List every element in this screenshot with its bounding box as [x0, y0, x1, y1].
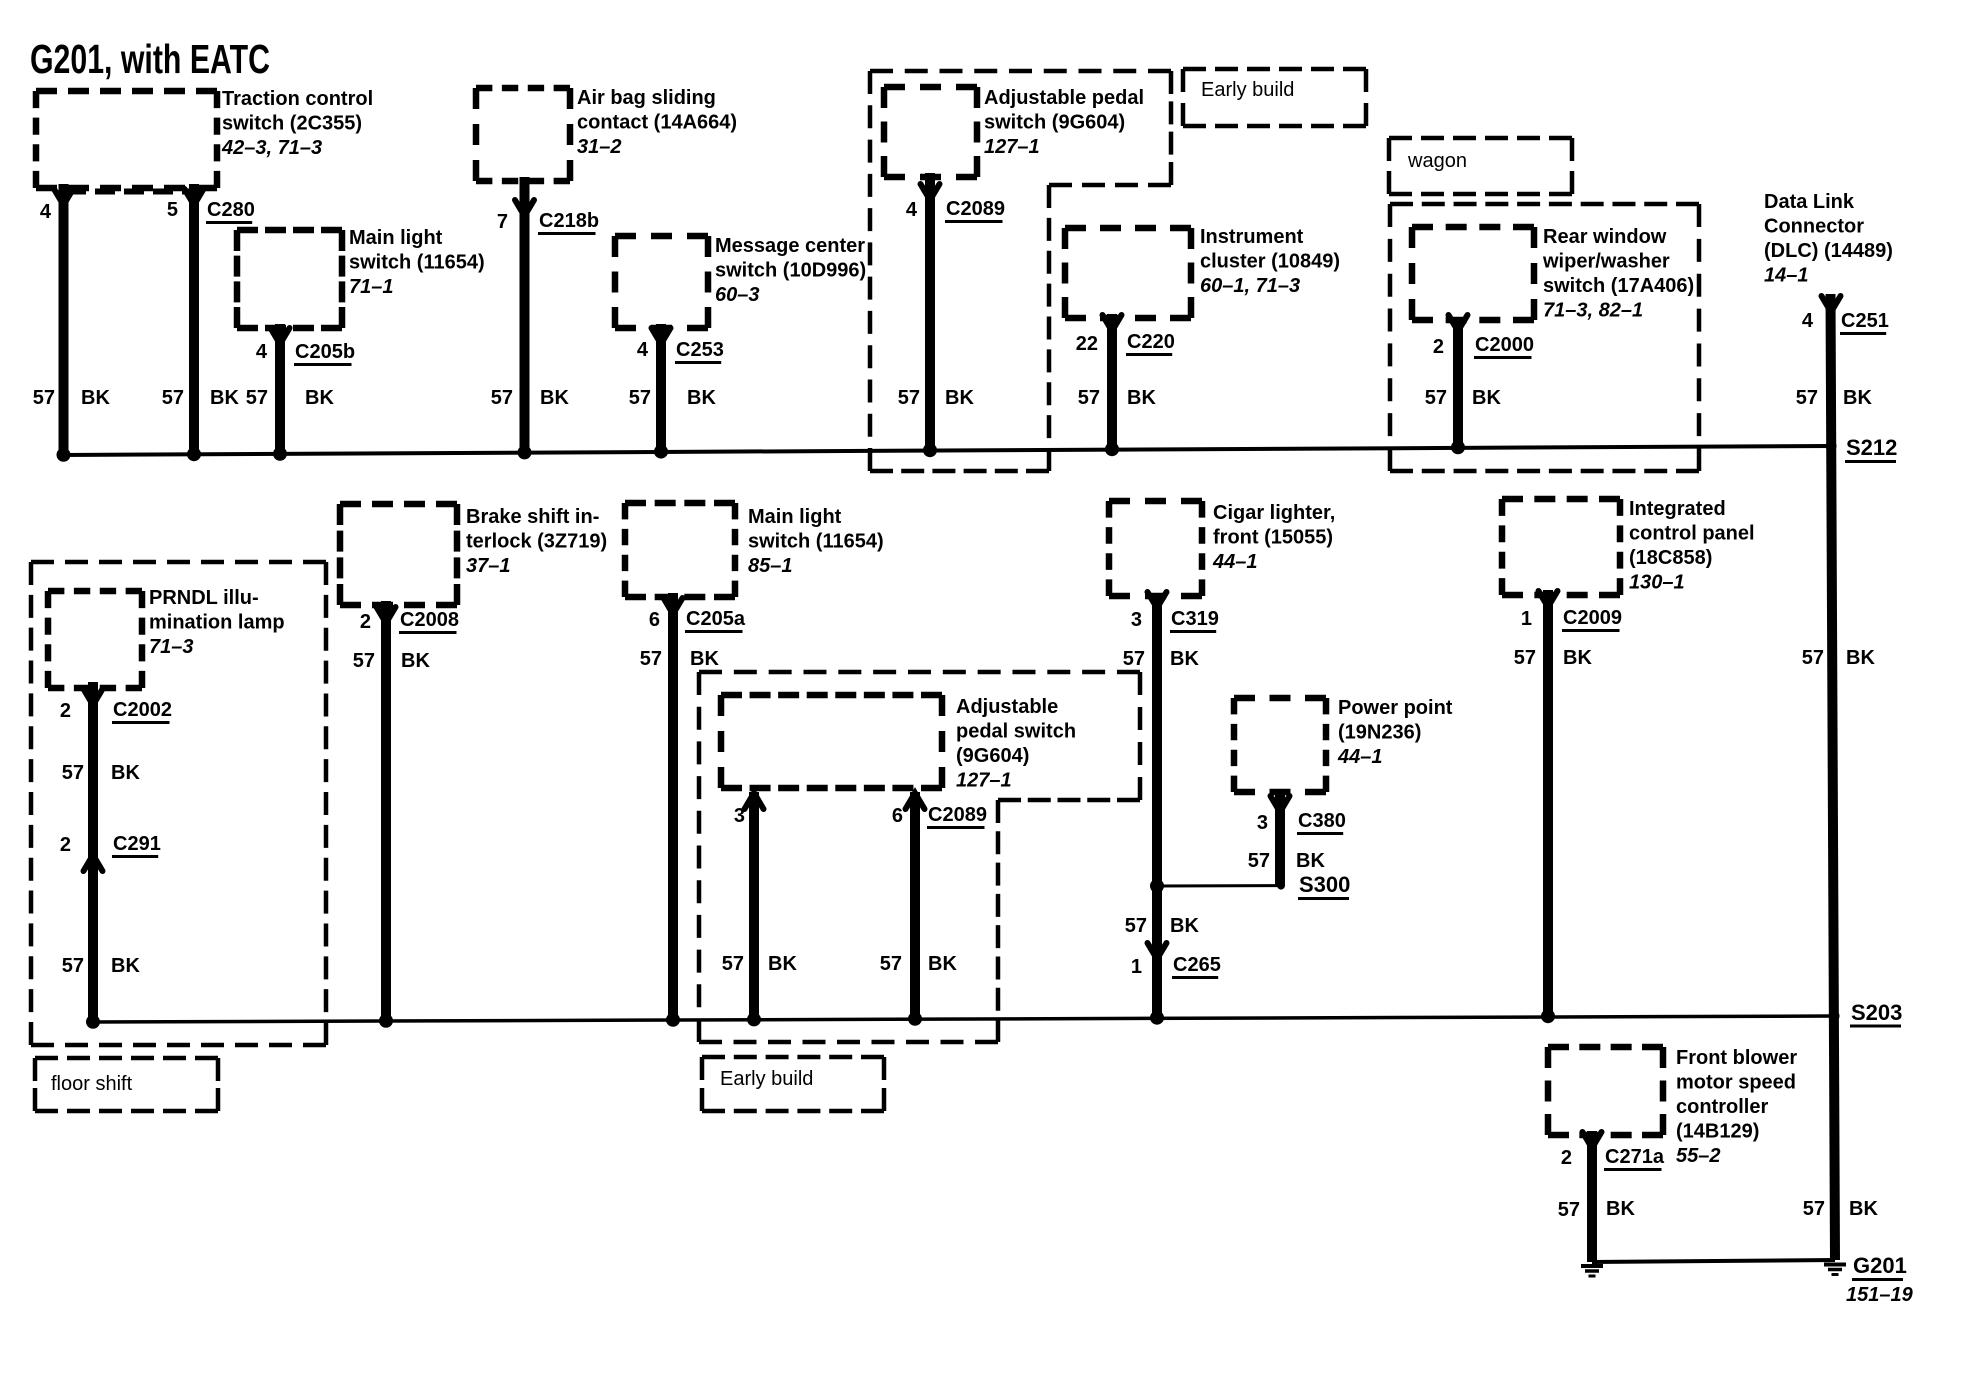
svg-text:151–19: 151–19 — [1846, 1284, 1914, 1306]
svg-text:C205b: C205b — [295, 341, 355, 363]
svg-text:57: 57 — [1248, 850, 1270, 872]
svg-text:Message center: Message center — [715, 235, 865, 257]
dot at power point wire end on S300 — [1277, 882, 1285, 890]
junction dot S212 / instrument cluster — [1105, 442, 1119, 456]
junction dot S203 / main light 85-1 — [666, 1013, 680, 1027]
svg-text:wagon: wagon — [1407, 150, 1467, 172]
svg-text:4: 4 — [256, 341, 268, 363]
junction dot S212 / message center — [654, 445, 668, 459]
svg-text:BK: BK — [81, 387, 110, 409]
svg-text:C2089: C2089 — [946, 198, 1005, 220]
svg-text:57: 57 — [1803, 1198, 1825, 1220]
brake shift interlock (3Z719) box — [340, 501, 457, 508]
svg-text:Data Link: Data Link — [1764, 191, 1855, 213]
svg-text:BK: BK — [111, 762, 140, 784]
svg-text:cluster (10849): cluster (10849) — [1200, 251, 1340, 273]
svg-text:5: 5 — [167, 199, 178, 221]
svg-text:contact (14A664): contact (14A664) — [577, 112, 737, 134]
svg-text:(14B129): (14B129) — [1676, 1121, 1759, 1143]
svg-text:BK: BK — [1563, 647, 1592, 669]
wire integrated control panel pin 1 to S203 — [1543, 590, 1553, 1016]
svg-text:BK: BK — [1170, 648, 1199, 670]
ground symbol at front blower wire — [1581, 1264, 1603, 1268]
wire front blower pin 2 to ground line — [1587, 1131, 1597, 1262]
svg-text:BK: BK — [1472, 387, 1501, 409]
svg-text:Adjustable: Adjustable — [956, 696, 1058, 718]
svg-text:Main light: Main light — [349, 227, 443, 249]
svg-text:BK: BK — [305, 387, 334, 409]
main light switch (11654) 85-1 box — [625, 500, 735, 507]
traction control switch (2C355) box — [36, 88, 217, 95]
svg-text:wiper/washer: wiper/washer — [1542, 251, 1670, 273]
svg-text:Rear window: Rear window — [1543, 226, 1667, 248]
air bag sliding contact (14A664) box — [476, 85, 570, 92]
svg-text:57: 57 — [629, 387, 651, 409]
svg-text:Cigar lighter,: Cigar lighter, — [1213, 502, 1335, 524]
svg-text:57: 57 — [1125, 915, 1147, 937]
svg-text:57: 57 — [1796, 387, 1818, 409]
svg-text:57: 57 — [353, 650, 375, 672]
svg-text:1: 1 — [1131, 956, 1142, 978]
junction dot S203 / adjustable pedal pin 3 — [747, 1012, 761, 1026]
svg-text:57: 57 — [62, 762, 84, 784]
svg-text:C271a: C271a — [1605, 1146, 1665, 1168]
junction dot S203 / adjustable pedal pin 6 — [908, 1012, 922, 1026]
floor shift label box — [35, 1056, 218, 1061]
svg-text:Main light: Main light — [748, 506, 842, 528]
wagon region around rear window wiper/washer switch — [1390, 202, 1699, 207]
junction dot S212 / DLC — [1826, 441, 1837, 452]
svg-text:Early build: Early build — [720, 1068, 813, 1090]
wire PRNDL lamp pin 2 to S203 — [88, 682, 98, 1022]
svg-text:C2008: C2008 — [400, 609, 459, 631]
wire DLC pin 4 down to G201 — [1831, 294, 1836, 1260]
junction dot S203 / integrated control panel — [1541, 1009, 1555, 1023]
svg-text:4: 4 — [1802, 310, 1814, 332]
junction dot S203 / DLC — [1829, 1011, 1840, 1022]
svg-text:BK: BK — [210, 387, 239, 409]
svg-text:switch (11654): switch (11654) — [349, 252, 485, 274]
svg-text:switch (10D996): switch (10D996) — [715, 260, 866, 282]
svg-text:6: 6 — [649, 609, 660, 631]
svg-text:Integrated: Integrated — [1629, 498, 1726, 520]
svg-text:BK: BK — [1127, 387, 1156, 409]
junction dot S212 / adjustable pedal top — [923, 443, 937, 457]
svg-text:C2009: C2009 — [1563, 607, 1622, 629]
svg-text:57: 57 — [1514, 647, 1536, 669]
PRNDL illumination lamp box — [48, 588, 142, 595]
svg-text:57: 57 — [1425, 387, 1447, 409]
svg-text:BK: BK — [928, 953, 957, 975]
main light switch (11654) 71-1 box — [237, 227, 342, 234]
svg-text:57: 57 — [1802, 647, 1824, 669]
svg-text:57: 57 — [162, 387, 184, 409]
early build label box (top) — [1183, 67, 1366, 72]
early build region around adjustable pedal switch (bottom) — [699, 670, 1140, 675]
rear window wiper/washer switch (17A406) box — [1412, 224, 1534, 231]
svg-text:Adjustable pedal: Adjustable pedal — [984, 87, 1144, 109]
wire cigar lighter pin 3 to S300 junction — [1152, 593, 1162, 886]
svg-text:(18C858): (18C858) — [1629, 547, 1712, 569]
svg-text:2: 2 — [1561, 1147, 1572, 1169]
svg-text:57: 57 — [491, 387, 513, 409]
junction dot S212 / air bag — [518, 445, 532, 459]
svg-text:4: 4 — [906, 199, 918, 221]
svg-text:57: 57 — [880, 953, 902, 975]
svg-text:C251: C251 — [1841, 310, 1889, 332]
wagon label box — [1389, 136, 1572, 141]
svg-text:57: 57 — [640, 648, 662, 670]
svg-text:127–1: 127–1 — [984, 136, 1040, 158]
svg-text:57: 57 — [33, 387, 55, 409]
svg-text:60–3: 60–3 — [715, 284, 760, 306]
svg-text:G201: G201 — [1853, 1253, 1907, 1278]
svg-text:57: 57 — [1078, 387, 1100, 409]
svg-text:PRNDL illu-: PRNDL illu- — [149, 587, 259, 609]
svg-text:44–1: 44–1 — [1212, 551, 1258, 573]
svg-text:22: 22 — [1076, 333, 1098, 355]
svg-text:127–1: 127–1 — [956, 770, 1012, 792]
svg-text:C220: C220 — [1127, 331, 1175, 353]
svg-text:pedal switch: pedal switch — [956, 721, 1076, 743]
svg-text:2: 2 — [1433, 336, 1444, 358]
svg-text:42–3, 71–3: 42–3, 71–3 — [221, 137, 322, 159]
svg-text:BK: BK — [690, 648, 719, 670]
svg-text:3: 3 — [734, 805, 745, 827]
svg-text:2: 2 — [60, 834, 71, 856]
svg-text:57: 57 — [62, 955, 84, 977]
svg-text:71–3, 82–1: 71–3, 82–1 — [1543, 300, 1643, 322]
svg-text:C2002: C2002 — [113, 699, 172, 721]
early build region around adjustable pedal switch (top) — [870, 69, 1171, 74]
wire adjustable pedal bottom pin 6 to S203 — [910, 792, 920, 1019]
svg-text:BK: BK — [1849, 1198, 1878, 1220]
wire main light switch pin 4 to S212 — [275, 324, 285, 454]
svg-text:(19N236): (19N236) — [1338, 722, 1421, 744]
junction dot S212 / rear window switch — [1451, 440, 1465, 454]
svg-text:BK: BK — [1606, 1198, 1635, 1220]
svg-text:31–2: 31–2 — [577, 136, 622, 158]
svg-text:2: 2 — [60, 700, 71, 722]
wire message center pin 4 to S212 — [656, 324, 666, 452]
svg-text:Air bag sliding: Air bag sliding — [577, 87, 716, 109]
svg-text:BK: BK — [687, 387, 716, 409]
svg-text:6: 6 — [892, 805, 903, 827]
svg-text:Traction control: Traction control — [222, 88, 373, 110]
svg-text:S203: S203 — [1851, 1000, 1902, 1025]
svg-text:(DLC) (14489): (DLC) (14489) — [1764, 240, 1893, 262]
junction dot S203 / brake shift — [379, 1014, 393, 1028]
svg-text:mination lamp: mination lamp — [149, 612, 285, 634]
svg-text:controller: controller — [1676, 1096, 1768, 1118]
svg-text:C2089: C2089 — [928, 804, 987, 826]
junction dot S212 / main light 71-1 — [273, 447, 287, 461]
svg-text:60–1, 71–3: 60–1, 71–3 — [1200, 275, 1300, 297]
svg-text:7: 7 — [497, 211, 508, 233]
svg-text:BK: BK — [1170, 915, 1199, 937]
wire instrument cluster pin 22 to S212 — [1107, 314, 1117, 449]
adjustable pedal switch (9G604) top box — [884, 84, 977, 91]
svg-text:BK: BK — [1296, 850, 1325, 872]
wire S300 horizontal — [1157, 884, 1281, 887]
svg-text:BK: BK — [540, 387, 569, 409]
svg-text:130–1: 130–1 — [1629, 572, 1685, 594]
bus S212 — [62, 446, 1831, 455]
svg-text:switch (9G604): switch (9G604) — [984, 112, 1125, 134]
svg-text:1: 1 — [1521, 608, 1532, 630]
svg-text:4: 4 — [637, 339, 649, 361]
junction dot S203 / PRNDL — [86, 1015, 100, 1029]
svg-text:55–2: 55–2 — [1676, 1145, 1721, 1167]
svg-text:BK: BK — [1843, 387, 1872, 409]
wire cigar lighter below S300 to S203 — [1152, 886, 1162, 1018]
svg-text:85–1: 85–1 — [748, 555, 793, 577]
svg-text:C291: C291 — [113, 833, 161, 855]
wire brake shift interlock pin 2 to S203 — [381, 601, 391, 1021]
svg-text:57: 57 — [1123, 648, 1145, 670]
svg-text:BK: BK — [768, 953, 797, 975]
svg-text:C205a: C205a — [686, 608, 746, 630]
power point (19N236) box — [1234, 695, 1326, 702]
integrated control panel (18C858) box — [1502, 496, 1620, 503]
wire rear window switch pin 2 to S212 — [1453, 323, 1463, 447]
svg-text:71–3: 71–3 — [149, 636, 194, 658]
svg-text:2: 2 — [360, 611, 371, 633]
svg-text:C265: C265 — [1173, 954, 1221, 976]
svg-text:Instrument: Instrument — [1200, 226, 1304, 248]
svg-text:3: 3 — [1131, 609, 1142, 631]
adjustable pedal switch (9G604) bottom box — [721, 692, 942, 699]
message center switch (10D996) box — [615, 233, 708, 240]
svg-text:Front blower: Front blower — [1676, 1047, 1797, 1069]
arrow into C265 — [1148, 943, 1167, 959]
ground line to G201 — [1592, 1260, 1835, 1262]
svg-text:C280: C280 — [207, 199, 255, 221]
svg-text:(9G604): (9G604) — [956, 745, 1029, 767]
svg-text:14–1: 14–1 — [1764, 265, 1809, 287]
early build label box (bottom) — [702, 1055, 884, 1060]
svg-text:control panel: control panel — [1629, 523, 1755, 545]
ground symbol G201 — [1824, 1263, 1846, 1267]
svg-text:BK: BK — [945, 387, 974, 409]
cigar lighter front (15055) box — [1109, 498, 1202, 505]
floor shift region box — [31, 560, 326, 565]
wire air bag pin 7 to S212 — [520, 177, 530, 452]
junction dot S212 / traction pin 5 — [187, 447, 201, 461]
wire adjustable pedal top pin 4 to S212 — [925, 173, 935, 450]
wire main light switch pin 6 to S203 — [668, 593, 678, 1020]
svg-text:57: 57 — [898, 387, 920, 409]
wire traction pin 5 to S212 — [189, 184, 199, 454]
svg-text:switch (17A406): switch (17A406) — [1543, 275, 1694, 297]
svg-text:C380: C380 — [1298, 810, 1346, 832]
svg-text:57: 57 — [722, 953, 744, 975]
svg-text:motor speed: motor speed — [1676, 1072, 1796, 1094]
svg-text:C2000: C2000 — [1475, 334, 1534, 356]
wire adjustable pedal bottom pin 3 to S203 — [749, 792, 759, 1019]
svg-text:57: 57 — [1558, 1199, 1580, 1221]
svg-text:C319: C319 — [1171, 608, 1219, 630]
svg-text:C218b: C218b — [539, 210, 599, 232]
svg-text:switch (2C355): switch (2C355) — [222, 113, 362, 135]
svg-text:4: 4 — [40, 201, 52, 223]
svg-text:C253: C253 — [676, 339, 724, 361]
svg-text:Early build: Early build — [1201, 79, 1294, 101]
svg-text:terlock (3Z719): terlock (3Z719) — [466, 531, 607, 553]
svg-text:BK: BK — [1846, 647, 1875, 669]
svg-text:Brake shift in-: Brake shift in- — [466, 506, 599, 528]
svg-text:Connector: Connector — [1764, 216, 1864, 238]
wire power point pin 3 to S300 — [1275, 789, 1285, 886]
svg-text:44–1: 44–1 — [1337, 746, 1383, 768]
svg-text:71–1: 71–1 — [349, 276, 394, 298]
svg-text:BK: BK — [111, 955, 140, 977]
junction dot S300 on cigar wire — [1150, 879, 1164, 893]
svg-text:57: 57 — [246, 387, 268, 409]
bus S203 — [92, 1016, 1834, 1022]
svg-text:37–1: 37–1 — [466, 555, 511, 577]
svg-text:Power point: Power point — [1338, 697, 1453, 719]
svg-text:front (15055): front (15055) — [1213, 527, 1333, 549]
svg-text:S300: S300 — [1299, 872, 1350, 897]
junction dot S212 / traction pin 4 — [57, 448, 71, 462]
svg-text:G201, with EATC: G201, with EATC — [30, 36, 270, 82]
front blower motor speed controller (14B129) box — [1548, 1044, 1663, 1051]
wire traction pin 4 to S212 — [59, 184, 69, 455]
up arrow at C291 — [84, 855, 103, 871]
instrument cluster (10849) box — [1065, 225, 1191, 232]
svg-text:BK: BK — [401, 650, 430, 672]
svg-text:3: 3 — [1257, 812, 1268, 834]
junction dot S203 / cigar lighter — [1150, 1011, 1164, 1025]
svg-text:S212: S212 — [1846, 435, 1897, 460]
svg-text:switch (11654): switch (11654) — [748, 531, 884, 553]
svg-text:floor shift: floor shift — [51, 1073, 133, 1095]
